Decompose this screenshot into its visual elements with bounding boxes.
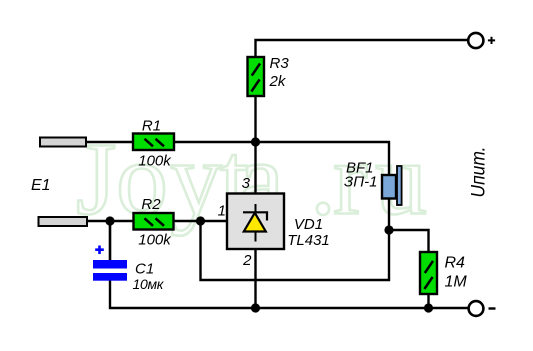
svg-text:E1: E1	[31, 177, 51, 194]
capacitor C1	[93, 246, 165, 293]
svg-text:2: 2	[242, 252, 252, 269]
svg-text:100k: 100k	[138, 153, 172, 170]
electrode E1 lower	[39, 217, 88, 226]
junction node R2 right / pin1 / loop	[196, 216, 205, 225]
svg-text:2k: 2k	[269, 73, 287, 90]
resistor R1	[133, 118, 174, 170]
junction node R4 bottom / rail	[424, 303, 433, 312]
svg-text:3: 3	[242, 175, 251, 192]
svg-text:R3: R3	[270, 55, 290, 72]
junction node pin2 / bottom rail	[251, 303, 260, 312]
wire bottom rail from C1 bottom to - terminal	[110, 280, 468, 308]
junction node BF1 bottom / R4	[384, 225, 393, 234]
resistor R3	[248, 55, 290, 96]
svg-text:VD1: VD1	[294, 216, 323, 233]
wire C1 branch down from R2 row node	[109, 221, 112, 261]
svg-text:1: 1	[218, 203, 226, 220]
wire R1 row from electrode E1 upper to BF1 branch	[85, 141, 390, 143]
svg-text:C1: C1	[135, 261, 154, 278]
wire BF1 vertical upper	[388, 141, 390, 176]
TL431 VD1	[218, 175, 330, 269]
resistor R2	[134, 196, 174, 249]
svg-text:Uпит.: Uпит.	[468, 147, 490, 198]
wire top rail from R3 top to + terminal	[256, 40, 468, 57]
wire feedback loop from BF1 bottom node to R2 right node	[201, 221, 390, 280]
terminal -	[469, 301, 496, 316]
junction node R1/R3/VD1 pin3	[251, 137, 260, 146]
electrode E1 upper	[40, 138, 86, 147]
wire R4 bottom to rail	[427, 293, 429, 308]
svg-text:R2: R2	[141, 196, 161, 213]
svg-text:R1: R1	[142, 118, 161, 135]
wire VD1 pin 2 down to bottom rail	[254, 248, 256, 308]
svg-text:R4: R4	[445, 255, 466, 272]
wire R3 bottom through node down to VD1 pin 3	[254, 96, 256, 194]
svg-text:TL431: TL431	[287, 232, 330, 249]
wire BF1 vertical lower	[388, 197, 390, 231]
wire R2 row from electrode E1 lower to VD1 pin 1	[85, 220, 228, 222]
wire from BF1 bottom node to R4 top	[389, 230, 429, 253]
svg-text:10мк: 10мк	[133, 276, 165, 292]
resistor R4	[420, 252, 467, 294]
junction node R2 left / C1	[105, 216, 114, 225]
svg-text:100k: 100k	[138, 232, 172, 249]
terminal +	[468, 33, 495, 48]
svg-text:ЗП-1: ЗП-1	[344, 174, 377, 191]
svg-text:1M: 1M	[445, 274, 468, 291]
piezo buzzer BF1	[344, 160, 402, 206]
